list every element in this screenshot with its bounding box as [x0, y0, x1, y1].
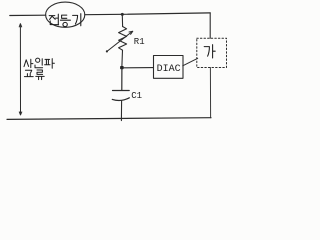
resistor R1 (variable, zigzag) — [119, 15, 127, 66]
node A: R1/C1/DIAC junction — [120, 66, 124, 69]
label 가 — [204, 45, 215, 58]
dashed box 가 (component position marker) — [197, 38, 227, 67]
wire: junction to DIAC box — [124, 67, 154, 69]
svg-text:DIAC: DIAC — [157, 64, 181, 75]
wire: C1 to bottom wire — [120, 101, 122, 121]
label 사인파 — [24, 58, 54, 68]
node: R1 top connection — [121, 13, 124, 16]
wire: top-left terminal to lamp — [10, 14, 46, 16]
lamp L1 (circle symbol) — [46, 2, 85, 27]
label 전등기 — [49, 14, 81, 27]
svg-text:R1: R1 — [134, 37, 145, 47]
AC source arrow (double-headed) — [19, 24, 22, 115]
wire: lamp to R1 top node — [85, 13, 123, 15]
svg-text:C1: C1 — [131, 91, 142, 101]
wire: top node to top-right corner — [122, 13, 210, 14]
wire: bottom — [7, 118, 211, 120]
leader line: DIAC to box 가 — [183, 58, 198, 66]
wire: right vertical lower segment — [209, 68, 211, 118]
wire: right vertical upper segment — [209, 13, 211, 38]
DIAC U1 (box) — [154, 56, 184, 79]
arrow: R1 wiper (diagonal) — [106, 31, 133, 52]
capacitor C1 (plates) — [112, 69, 129, 101]
label 교류 — [24, 70, 44, 80]
